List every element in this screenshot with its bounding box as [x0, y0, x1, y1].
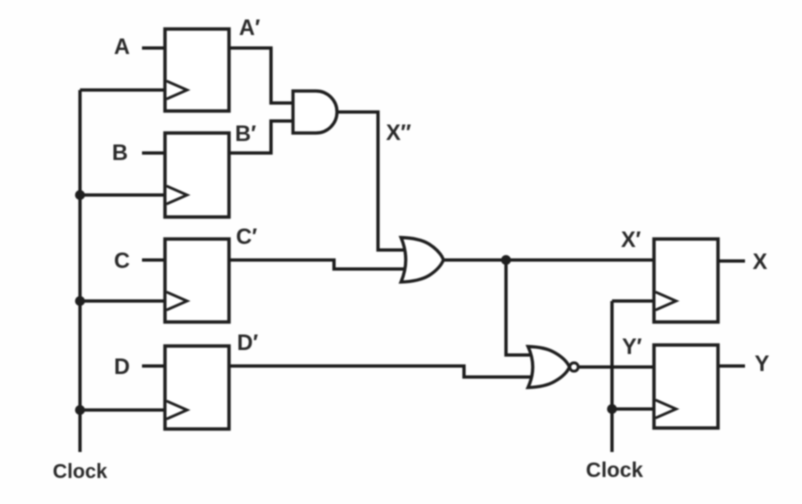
svg-text:B: B	[112, 140, 128, 165]
svg-text:D′: D′	[237, 330, 258, 355]
svg-text:A: A	[114, 34, 130, 59]
svg-text:X′: X′	[621, 227, 641, 252]
svg-text:A′: A′	[239, 15, 260, 40]
svg-text:Clock: Clock	[53, 461, 108, 483]
svg-text:Y′: Y′	[622, 334, 642, 359]
svg-text:B′: B′	[235, 121, 256, 146]
svg-text:X″: X″	[386, 120, 412, 145]
svg-text:D: D	[114, 354, 130, 379]
svg-text:X: X	[753, 249, 768, 274]
svg-text:C: C	[114, 248, 130, 273]
svg-text:Y: Y	[755, 351, 770, 376]
svg-text:Clock: Clock	[586, 459, 644, 482]
svg-text:C′: C′	[236, 224, 257, 249]
